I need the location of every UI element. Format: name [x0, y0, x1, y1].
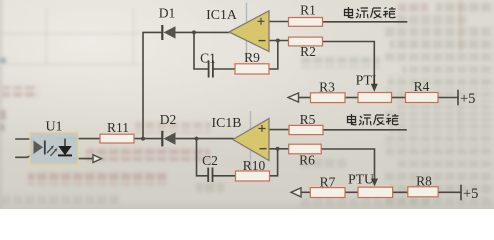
resistor R2: [289, 37, 323, 46]
svg-text:R6: R6: [299, 153, 315, 168]
resistor R4: [406, 93, 439, 103]
wire: R7 to PTU: [345, 191, 358, 193]
wire: U1 photodiode top lead to R11: [57, 138, 100, 140]
diode D1: [162, 25, 175, 40]
wire: R9 to feedback riser to minus wire: [269, 41, 278, 70]
svg-text:PTI: PTI: [356, 73, 377, 88]
svg-text:R3: R3: [319, 79, 335, 94]
terminal: open arrow left (PTU row): [291, 188, 301, 197]
node: C1 branch junction: [192, 30, 196, 34]
node: C2 branch junction: [195, 137, 199, 141]
svg-text:R5: R5: [300, 112, 316, 127]
svg-text:R11: R11: [107, 120, 129, 135]
op-amp IC1A: [229, 3, 269, 58]
faint table grid top-left: [0, 8, 140, 65]
svg-text:R4: R4: [414, 79, 430, 94]
resistor R8: [408, 187, 438, 197]
terminal tick +5 (bottom): [460, 186, 462, 200]
svg-text:C1: C1: [200, 51, 216, 66]
resistor R1: [289, 18, 323, 27]
optocoupler U1 body: [30, 133, 78, 165]
node: IC1A minus feedback junction: [276, 39, 280, 43]
PT1 wiper arrowhead: [371, 84, 378, 92]
resistor R6: [289, 144, 322, 154]
capacitor C1: [209, 61, 213, 78]
svg-text:R10: R10: [243, 158, 266, 173]
op-amp IC1B: [233, 111, 269, 168]
U1 LED: [34, 141, 58, 156]
resistor R7: [310, 188, 345, 198]
resistor R9: [235, 64, 269, 74]
wire: R1 to current-feedback terminal: [323, 21, 407, 23]
wire: U1 inputs: [16, 139, 34, 157]
potentiometer PTU: [358, 187, 393, 197]
wire: R3 to PT1: [345, 97, 358, 99]
svg-text:D2: D2: [160, 112, 177, 127]
svg-text:R7: R7: [320, 174, 336, 189]
resistor R11: [100, 134, 134, 143]
PTU wiper arrowhead: [371, 179, 378, 187]
wire: R4 to +5 tick: [438, 97, 458, 99]
terminal tick +5 (top): [457, 91, 459, 105]
wire: R11 to D2: [134, 138, 162, 140]
resistor R5: [289, 125, 323, 134]
wire: PTU row left arrow to R7: [301, 191, 310, 193]
node: IC1B minus feedback junction: [276, 147, 280, 151]
wire: C2 to R10: [213, 175, 235, 177]
wire: PT1 row left arrow to R3: [299, 97, 311, 99]
svg-text:C2: C2: [202, 153, 218, 168]
wire: IC1A minus out to R2: [269, 40, 289, 42]
svg-text:R1: R1: [300, 3, 316, 18]
capacitor C2: [208, 168, 212, 183]
wire: D2 to IC1B apex: [176, 138, 234, 140]
wire: vertical riser from R11 node to D1 row: [143, 32, 162, 138]
svg-text:R2: R2: [300, 44, 316, 59]
svg-text:IC1A: IC1A: [206, 7, 237, 22]
wire: IC1B plus out to R5: [269, 129, 289, 131]
svg-text:IC1B: IC1B: [212, 115, 242, 130]
node: R11/D1 riser junction: [141, 137, 145, 141]
wire: R6 right then down to PTU wiper: [321, 149, 374, 180]
resistor R3: [311, 93, 346, 103]
resistor R10: [236, 171, 270, 181]
wire: PT1 to R4: [392, 97, 406, 99]
wire: IC1A plus out to R1: [269, 21, 289, 23]
wire: R2 right then down to PT1 wiper: [323, 42, 375, 85]
terminal: open arrow right (U1 output): [93, 155, 102, 163]
svg-text:U1: U1: [45, 120, 62, 135]
label: current feedback (bottom), hand-drawn hanzi: [348, 114, 399, 125]
wire: C1 branch drop: [194, 32, 208, 69]
wire: D1 to IC1A apex: [176, 31, 230, 33]
svg-text:PTU: PTU: [348, 172, 374, 187]
wire: C1 to R9: [214, 68, 235, 70]
svg-text:+5: +5: [463, 186, 478, 202]
mid bleed pink rows under R11 / bottom left: [135, 122, 211, 133]
wire: R10 to feedback riser to minus wire: [270, 149, 278, 176]
wire: PTU to R8: [393, 191, 408, 193]
label: current feedback (top), hand-drawn hanzi: [345, 7, 396, 18]
wire: R8 to +5 tick: [438, 191, 461, 193]
wire: R5 to current-feedback terminal: [323, 129, 406, 131]
left margin marks: [2, 86, 38, 97]
svg-text:D1: D1: [159, 6, 176, 21]
wire: C2 branch drop: [197, 139, 208, 176]
wire: IC1B minus out to R6: [269, 148, 289, 150]
svg-text:+5: +5: [460, 91, 475, 107]
svg-text:R8: R8: [416, 174, 432, 189]
potentiometer PT1: [358, 93, 392, 103]
faint text rows between channels: [300, 57, 380, 68]
svg-text:R9: R9: [244, 50, 260, 65]
U1 photodiode: [58, 139, 72, 156]
terminal: open arrow left (PT1 row): [288, 93, 299, 102]
diode D2: [162, 131, 175, 147]
wire: U1 bottom lead to open arrow: [65, 155, 93, 158]
